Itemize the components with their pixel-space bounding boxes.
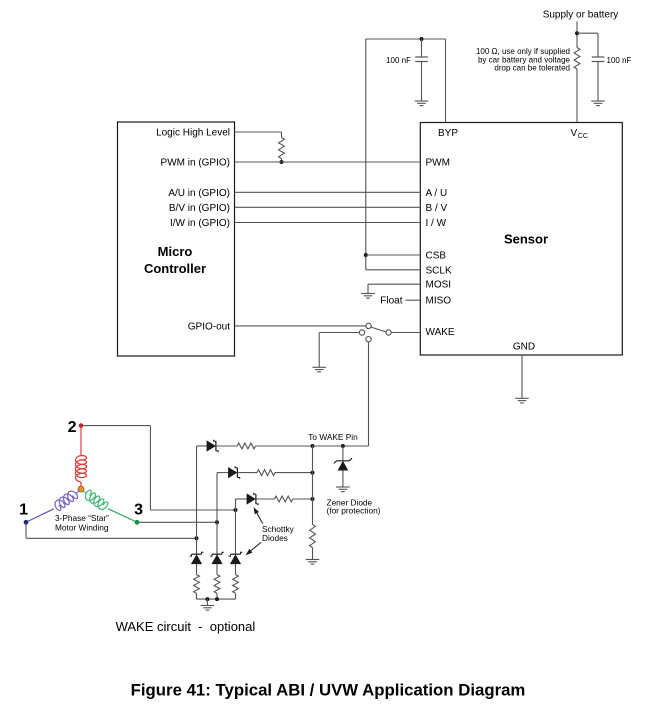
ground bus resistor [306,560,320,565]
wire D3 to R4 [256,498,275,500]
wire clamp bottom rail [197,598,236,600]
pin label BYP [438,128,458,139]
wire branch to right capacitor [577,33,598,57]
pin label SCLK [426,265,452,276]
svg-text:V: V [571,128,578,139]
node terminal 3 [135,520,140,525]
svg-text:BYP: BYP [438,128,458,139]
junction BYP cap tap [420,37,424,41]
svg-text:A / U: A / U [426,188,448,199]
winding phase 2 red coil [76,428,87,487]
wire R4 to bus [293,498,313,500]
svg-text:2: 2 [68,419,77,436]
wire B/V [235,206,421,208]
svg-text:SCLK: SCLK [426,265,452,276]
svg-text:Figure 41: Typical ABI / UVW A: Figure 41: Typical ABI / UVW Application… [131,681,526,700]
diode D5 schottky clamp [210,552,224,564]
svg-text:WAKE circuit - optional: WAKE circuit - optional [116,619,256,634]
resistor R6 clamp [194,564,200,599]
wire BYP top rail [366,38,446,40]
svg-text:Motor Winding: Motor Winding [55,523,109,533]
wire branch2 feed vertical [216,473,218,555]
pin label GPIO-out [188,321,230,332]
junction feed 1 [195,536,199,540]
label Sensor [504,232,548,247]
svg-text:CC: CC [578,133,588,140]
diode D3 schottky branch3 [236,493,259,506]
svg-text:Diodes: Diodes [262,533,288,543]
wire R2 to bus [256,445,313,447]
node star center [78,486,84,492]
svg-text:(for protection): (for protection) [327,506,381,516]
pin label MISO [426,296,452,307]
svg-text:100 nF: 100 nF [386,56,411,65]
svg-text:Supply or battery: Supply or battery [543,10,619,21]
resistor R5 bus pulldown [310,525,316,548]
diode D2 schottky branch2 [217,466,240,479]
wire R5 to ground [312,548,314,560]
junction clamp middle [215,597,219,601]
resistor R2 branch1 [237,443,255,449]
sensor box U2 [420,123,622,356]
svg-text:drop can be tolerated: drop can be tolerated [494,64,570,73]
wire BYP stub down [445,39,447,123]
svg-text:Sensor: Sensor [504,232,548,247]
label Micro Controller [144,244,206,276]
junction feed 3 [215,520,219,524]
junction bus branch2 [311,471,315,475]
caption Figure 41 [131,681,526,700]
capacitor C2 100 nF [592,57,605,101]
svg-text:CSB: CSB [426,251,447,262]
resistor R7 clamp [214,564,220,599]
junction feed 2 [234,508,238,512]
wire R3 to bus [275,472,313,474]
wire Float to MISO [406,299,421,301]
wire MOSI to ground [368,284,420,293]
value label 100 nF left [386,56,411,65]
wire supply vertical upper [576,22,578,48]
wire switch common to WAKE [391,332,420,334]
wire switch ground throw [319,333,359,368]
svg-text:100 nF: 100 nF [607,56,632,65]
resistor R4 branch3 [275,496,293,502]
label terminal 3 [134,502,143,519]
pin label I / W [426,218,447,229]
junction PWM pull [280,160,284,164]
wire Logic High Level to pull resistor [235,132,282,138]
svg-text:WAKE: WAKE [426,327,455,338]
svg-text:MISO: MISO [426,296,452,307]
junction supply branch [575,31,579,35]
pin label I/W in (GPIO) [170,218,230,229]
wire bus vertical [312,446,314,525]
ground under C1 [415,101,429,106]
svg-text:Float: Float [380,296,402,307]
wire branch1 feed vertical [196,446,198,554]
arrow to branch3 diode [254,507,263,524]
label WAKE circuit optional [116,619,256,634]
capacitor C1 100 nF [415,39,428,101]
svg-text:GND: GND [513,342,535,353]
junction zener tap [341,444,345,448]
ground zener [336,487,350,492]
label Zener Diode (for protection) [327,497,381,515]
label Float [380,296,402,307]
resistor R8 clamp [233,564,239,599]
winding phase 3 green coil [82,490,135,521]
wire switch to wake circuit vertical [343,342,369,446]
label terminal 1 [19,502,28,519]
wire branch3 feed vertical [235,499,237,554]
pin label Logic High Level [156,128,230,139]
label Schottky Diodes [262,524,295,543]
pin label A / U [426,188,448,199]
wire resistor to PWM net [281,159,283,163]
ground switch throw [312,367,326,372]
label 3-Phase Star Motor Winding [55,513,109,533]
label terminal 2 [68,419,77,436]
wire supply to VCC [576,69,578,123]
wire CSB [366,254,421,256]
ground clamp rail [201,606,215,611]
junction clamp ground tap [205,597,209,601]
svg-text:I / W: I / W [426,218,447,229]
svg-text:GPIO-out: GPIO-out [188,321,230,332]
svg-text:Controller: Controller [144,261,206,276]
pin label GND [513,342,535,353]
resistor R3 branch2 [257,470,275,476]
wire CSB SCLK pullup vertical [365,39,367,270]
svg-text:Micro: Micro [158,244,193,259]
node terminal 2 [79,423,84,428]
wire PWM [235,161,421,163]
arrow to clamp diodes [246,542,262,555]
diode D4 schottky clamp [190,552,204,564]
ground MOSI [361,294,375,299]
wire terminal 2 feed [83,426,235,510]
svg-text:MOSI: MOSI [426,280,452,291]
value label 100 Ohm note [476,47,571,73]
wire terminal 3 feed [139,521,217,523]
svg-text:PWM: PWM [426,158,450,169]
diode D6 schottky clamp [229,552,243,564]
wire sensor GND stub [521,355,523,398]
svg-text:PWM in (GPIO): PWM in (GPIO) [161,158,230,169]
svg-text:Logic High Level: Logic High Level [156,128,230,139]
pin label A/U in (GPIO) [168,188,230,199]
pin label PWM in (GPIO) [161,158,230,169]
pin label CSB [426,251,447,262]
junction bus branch1 [311,444,315,448]
ground under C2 [591,101,605,106]
wire terminal 1 feed [26,525,197,539]
ground sensor GND [515,398,529,403]
micro controller box U1 [118,122,235,356]
svg-text:B/V in (GPIO): B/V in (GPIO) [169,203,230,214]
junction bus branch3 [311,497,315,501]
wire GPIO-out to switch [235,325,366,327]
svg-text:3: 3 [134,502,143,519]
wire D2 to R3 [237,472,257,474]
switch SW1 wake select [359,323,391,342]
node terminal 1 [24,520,29,525]
diode D1 schottky branch1 [197,440,219,453]
pin label VCC [571,128,588,140]
pin label B / V [426,203,448,214]
pin label PWM [426,158,450,169]
wire bus to zener tap [313,445,343,447]
svg-text:3-Phase “Star”: 3-Phase “Star” [55,513,109,523]
zener diode ZD1 protection [334,446,352,487]
label To WAKE Pin [308,432,358,442]
wire D1 to R2 [216,445,237,447]
svg-text:A/U in (GPIO): A/U in (GPIO) [168,188,230,199]
resistor R1 pull to PWM [279,138,285,159]
wire ground stub clamp [206,599,208,605]
svg-text:I/W in (GPIO): I/W in (GPIO) [170,218,230,229]
pin label WAKE [426,327,455,338]
resistor 100 Ohm supply [574,48,580,70]
wire SCLK [366,269,421,271]
svg-text:To WAKE Pin: To WAKE Pin [308,432,358,442]
value label 100 nF right [607,56,632,65]
svg-text:1: 1 [19,502,28,519]
pin label MOSI [426,280,452,291]
winding phase 1 blue coil [28,490,80,521]
pin label B/V in (GPIO) [169,203,230,214]
wire I/W [235,222,421,224]
junction CSB pullup [364,253,368,257]
wire A/U [235,191,421,193]
svg-text:B / V: B / V [426,203,448,214]
net Supply or battery label [543,10,619,21]
